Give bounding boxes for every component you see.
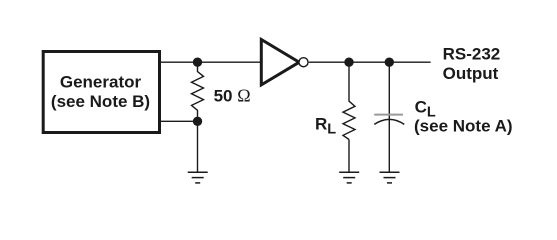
svg-text:(see Note A): (see Note A): [414, 116, 513, 135]
inverter output bubble: [299, 58, 308, 67]
svg-text:RS-232: RS-232: [443, 45, 501, 64]
svg-text:RL: RL: [315, 114, 336, 137]
resistor RL: [343, 101, 355, 140]
wire top: generator to inverter: [161, 61, 261, 63]
generator box: [43, 52, 159, 133]
wire: junction to RL: [348, 62, 350, 101]
op-amp U1 inverter triangle: [261, 40, 299, 85]
node RL junction: [344, 58, 353, 67]
node top junction: [193, 58, 202, 67]
svg-text:Output: Output: [443, 64, 499, 83]
ground (generator side): [188, 172, 208, 183]
svg-text:(see Note B): (see Note B): [51, 92, 150, 111]
node CL junction: [385, 58, 394, 67]
wire bottom: generator to resistor: [161, 120, 198, 122]
capacitor CL top plate: [374, 114, 403, 116]
ground (RL): [339, 172, 359, 183]
resistor 50 ohm: [192, 62, 204, 121]
svg-text:Generator: Generator: [60, 73, 142, 92]
svg-text:50 Ω: 50 Ω: [214, 85, 251, 105]
node bottom junction: [193, 117, 202, 126]
capacitor CL curved plate: [374, 119, 404, 124]
wire: junction down through CL to ground: [388, 62, 390, 172]
wire: RL to ground: [348, 140, 350, 172]
wire: bottom node to ground: [197, 121, 199, 172]
wire: inverter output to RS-232: [309, 61, 431, 63]
ground (CL): [380, 172, 400, 183]
